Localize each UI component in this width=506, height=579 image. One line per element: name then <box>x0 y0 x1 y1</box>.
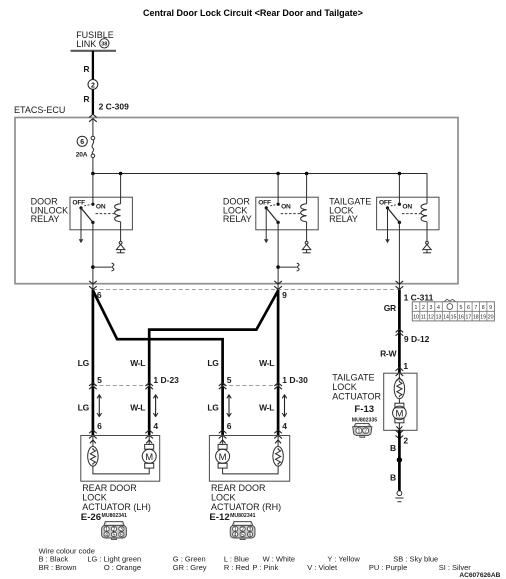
relay U3 box (tailgate lock relay) <box>377 197 439 230</box>
svg-text:W-L: W-L <box>259 358 274 368</box>
svg-text:RELAY: RELAY <box>223 214 252 224</box>
svg-text:1 C-311: 1 C-311 <box>404 292 434 302</box>
U3 coil-to-earth wire <box>426 222 428 242</box>
fusible link bus bar <box>71 50 117 52</box>
svg-text:6: 6 <box>97 421 102 431</box>
U3 common dot <box>398 221 401 224</box>
svg-text:LOCK: LOCK <box>332 382 357 392</box>
U2 switch lever <box>266 208 278 223</box>
svg-text:R : Red: R : Red <box>224 563 249 572</box>
U1 ON contact dot <box>91 203 94 206</box>
svg-text:9: 9 <box>282 290 287 300</box>
U1 dashed link to coil <box>96 213 117 215</box>
U1 common dot <box>91 221 94 224</box>
svg-text:B: B <box>390 443 396 453</box>
svg-text:5: 5 <box>97 375 102 385</box>
U3 dead-end arrowhead <box>385 239 390 243</box>
U3 ON contact dot <box>398 203 401 206</box>
U1 exit chevrons <box>89 281 96 289</box>
RH internal arrowhead 1 <box>220 440 225 443</box>
LH actuator box <box>81 436 160 482</box>
svg-text:Central Door Lock Circuit <Rea: Central Door Lock Circuit <Rear Door and… <box>143 8 363 18</box>
svg-text:W-L: W-L <box>130 358 145 368</box>
chevrons wire3 at D-30 <box>219 383 226 389</box>
unlock branch wire to RH actuator <box>93 291 223 436</box>
chevrons wire1 at D-23 <box>89 383 96 389</box>
tailgate internal arrowhead <box>397 378 402 381</box>
U1 dashed OFF-ON link <box>84 205 91 206</box>
U3 dashed link to coil <box>402 213 422 215</box>
svg-text:MU802341: MU802341 <box>102 513 127 519</box>
svg-text:17: 17 <box>466 315 472 321</box>
U1 coil-to-earth wire <box>120 222 122 242</box>
svg-text:9 D-12: 9 D-12 <box>404 334 430 344</box>
fusible link label <box>76 30 114 49</box>
svg-text:15: 15 <box>451 315 457 321</box>
svg-text:ACTUATOR: ACTUATOR <box>332 392 381 402</box>
svg-text:R: R <box>83 94 89 104</box>
svg-text:11: 11 <box>421 315 426 321</box>
svg-text:RELAY: RELAY <box>329 214 358 224</box>
two-way arrow wire2 <box>154 395 158 417</box>
U2 coil feed wire <box>306 174 308 204</box>
U2 dashed link to coil <box>281 213 302 215</box>
LH lock switch (resistor oval) <box>88 447 98 467</box>
svg-text:R-W: R-W <box>380 349 397 359</box>
two-way arrow wire1 <box>97 395 101 417</box>
svg-text:ON: ON <box>402 204 412 211</box>
chevrons wire4 at D-30 <box>275 383 282 389</box>
tailgate motor M <box>393 403 407 423</box>
junction dot (lock coil) <box>305 172 309 176</box>
RH lock switch (resistor oval) <box>273 447 283 467</box>
tailgate wire (GR segment) <box>398 290 401 374</box>
svg-text:E-26: E-26 <box>81 512 101 523</box>
tailgate actuator entry chevrons <box>396 368 403 376</box>
svg-text:W-L: W-L <box>130 402 145 412</box>
DOOR LOCK RELAY label <box>223 197 252 225</box>
tailgate internal wire (bottom) <box>398 423 400 431</box>
svg-text:2 C-309: 2 C-309 <box>99 102 130 112</box>
E-12 connector icon <box>230 522 255 540</box>
svg-text:LG: LG <box>207 358 219 368</box>
svg-text:LG: LG <box>78 402 90 412</box>
U1 switch lever <box>81 208 93 223</box>
svg-text:ON: ON <box>281 204 291 211</box>
svg-text:LINK: LINK <box>76 39 96 49</box>
U2 output junction dot <box>276 265 280 269</box>
tailgate exit chevrons <box>396 431 403 439</box>
earth junction dot <box>397 457 402 462</box>
U1 OFF dead-end wire <box>80 208 82 240</box>
svg-text:12: 12 <box>428 315 434 321</box>
svg-text:2: 2 <box>91 82 95 89</box>
U2 common dot <box>276 221 279 224</box>
relay U1 box (door unlock relay) <box>70 197 132 230</box>
svg-text:13: 13 <box>436 315 442 321</box>
svg-text:10: 10 <box>413 315 419 321</box>
svg-text:LG: LG <box>78 358 90 368</box>
U1 branch to other circuit <box>93 266 112 268</box>
D-12 chevrons <box>396 329 403 335</box>
svg-text:4: 4 <box>153 421 158 431</box>
svg-text:2: 2 <box>364 429 367 435</box>
svg-text:B: B <box>390 472 396 482</box>
U3 switched output wire <box>398 222 400 289</box>
U2 branch hook <box>297 263 299 271</box>
svg-text:5: 5 <box>460 305 463 311</box>
two-way arrow wire4 <box>283 395 287 417</box>
U3 pivot dot <box>386 206 389 209</box>
svg-text:6: 6 <box>120 532 123 538</box>
U2 dead-end arrowhead <box>264 239 269 243</box>
U3 exit chevrons <box>396 281 403 289</box>
svg-text:AC607626AB: AC607626AB <box>459 572 500 579</box>
relay U2 box (door lock relay) <box>256 197 318 230</box>
junction dot (tailgate relay switch) <box>398 172 402 176</box>
svg-text:ACTUATOR (RH): ACTUATOR (RH) <box>211 502 281 512</box>
svg-text:R: R <box>83 64 89 74</box>
svg-text:MU802335: MU802335 <box>352 417 377 423</box>
svg-text:F-13: F-13 <box>354 404 374 415</box>
ETACS-ECU box <box>15 118 458 284</box>
B earth wire <box>398 430 401 491</box>
fuse 20A <box>91 136 95 157</box>
svg-text:4: 4 <box>234 532 237 538</box>
F-13 connector icon <box>353 423 372 437</box>
U2 coil-to-earth wire <box>306 222 308 242</box>
svg-text:5: 5 <box>113 532 116 538</box>
svg-text:1 D-23: 1 D-23 <box>153 375 179 385</box>
U3 switch feed wire <box>398 174 400 205</box>
U2 OFF dead-end wire <box>265 208 267 240</box>
U3 OFF dead-end wire <box>387 208 389 240</box>
svg-text:P : Pink: P : Pink <box>253 563 279 572</box>
U1 output junction dot <box>91 265 95 269</box>
RH internal arrowhead 2 <box>275 440 280 443</box>
U1 earth symbol <box>116 241 124 252</box>
svg-text:6: 6 <box>227 421 232 431</box>
svg-text:OFF: OFF <box>72 200 85 207</box>
svg-text:4: 4 <box>437 305 440 311</box>
svg-text:1: 1 <box>415 305 418 311</box>
E-26 connector icon <box>102 522 127 540</box>
U3 earth symbol <box>423 241 431 252</box>
connector dashed line below ECU <box>93 289 400 291</box>
LH motor M <box>142 444 156 468</box>
svg-text:2: 2 <box>422 305 425 311</box>
body earth symbol <box>395 491 403 502</box>
svg-text:ETACS-ECU: ETACS-ECU <box>14 105 65 115</box>
U2 coil <box>301 204 307 222</box>
svg-text:RELAY: RELAY <box>31 214 60 224</box>
circled 6 (fuse number) <box>77 136 87 146</box>
tailgate internal wire (top) <box>398 373 400 379</box>
C-311 connector pin table <box>412 299 494 321</box>
svg-text:M: M <box>145 452 153 463</box>
svg-text:16: 16 <box>458 315 464 321</box>
U1 switched output wire <box>92 222 94 289</box>
svg-text:V : Violet: V : Violet <box>307 563 338 572</box>
battery feed wire (R) <box>92 51 94 115</box>
svg-text:TAILGATE: TAILGATE <box>332 372 374 382</box>
entry chevrons wire1 <box>89 430 96 438</box>
svg-text:OFF: OFF <box>379 200 392 207</box>
svg-text:SI : Silver: SI : Silver <box>439 563 472 572</box>
tailgate lock switch (resistor oval) <box>394 379 404 399</box>
wire colour code line 2 <box>39 563 472 572</box>
tailgate internal exit arrowhead <box>397 427 402 430</box>
chevrons wire2 at D-23 <box>146 383 153 389</box>
U1 branch hook <box>111 263 113 271</box>
U1 pivot dot <box>79 206 82 209</box>
wire fuse to bus junction <box>92 158 94 174</box>
svg-text:LG: LG <box>207 402 219 412</box>
junction dot (fuse/bus) <box>91 172 95 176</box>
svg-text:1: 1 <box>357 429 360 435</box>
svg-text:O : Orange: O : Orange <box>104 563 141 572</box>
RH actuator box <box>209 436 289 482</box>
svg-text:20: 20 <box>488 315 494 321</box>
U3 switch lever <box>388 208 400 223</box>
U1 coil <box>115 204 121 222</box>
svg-text:8: 8 <box>482 305 485 311</box>
LH actuator internal wire (switch side) <box>92 436 94 447</box>
D-23 dashed connector line <box>93 385 149 387</box>
LG wire to LH actuator <box>92 290 95 436</box>
LH internal link wire <box>93 466 149 474</box>
U1 dead-end arrowhead <box>79 239 84 243</box>
U3 dashed OFF-ON link <box>391 205 398 206</box>
U2 pivot dot <box>265 206 268 209</box>
svg-text:GR: GR <box>384 303 396 313</box>
svg-text:1 D-30: 1 D-30 <box>282 375 308 385</box>
LH internal arrowhead 1 <box>90 440 95 443</box>
U2 branch to other circuit <box>278 266 297 268</box>
svg-text:M: M <box>219 452 227 463</box>
circled 38 <box>100 39 109 48</box>
TAILGATE LOCK RELAY label <box>329 197 371 225</box>
svg-text:3: 3 <box>430 305 433 311</box>
W-L wire to RH actuator <box>277 290 280 436</box>
two-way arrow wire3 <box>227 395 231 417</box>
RH actuator internal wire (switch side) <box>277 436 279 447</box>
junction dot (lock relay switch) <box>276 172 280 176</box>
U2 switched output wire <box>277 222 279 289</box>
RH actuator label <box>211 483 281 512</box>
svg-text:ACTUATOR (LH): ACTUATOR (LH) <box>82 502 151 512</box>
svg-text:4: 4 <box>282 421 287 431</box>
RH actuator internal wire (motor side) <box>222 436 224 445</box>
svg-text:ON: ON <box>96 204 106 211</box>
DOOR UNLOCK RELAY label <box>31 197 69 225</box>
svg-text:7: 7 <box>474 305 477 311</box>
svg-text:6: 6 <box>467 305 470 311</box>
TAILGATE LOCK ACTUATOR label <box>332 372 381 401</box>
tailgate actuator box <box>384 373 417 430</box>
svg-text:18: 18 <box>473 315 479 321</box>
wire colour code line 1 <box>39 555 439 564</box>
U2 switch feed wire <box>277 174 279 205</box>
svg-text:PU : Purple: PU : Purple <box>369 563 407 572</box>
svg-text:6: 6 <box>80 139 84 146</box>
svg-text:38: 38 <box>101 42 107 48</box>
svg-text:W-L: W-L <box>259 402 274 412</box>
entry chevrons wire3 <box>219 430 226 438</box>
U1 switch feed wire <box>92 174 94 205</box>
wire from C-309 entry to fuse <box>92 119 94 137</box>
tailgate wire between switch and motor <box>398 399 400 404</box>
svg-text:BR : Brown: BR : Brown <box>39 563 77 572</box>
U3 coil <box>421 204 427 222</box>
LH actuator internal wire (motor side) <box>148 436 150 445</box>
LH actuator label <box>82 483 151 512</box>
chevrons at C-309 entry <box>89 114 96 121</box>
svg-text:GR : Grey: GR : Grey <box>173 563 207 572</box>
D-30 dashed connector line <box>223 385 279 387</box>
svg-text:20A: 20A <box>76 151 88 158</box>
circled 2 <box>88 80 98 90</box>
RH internal link wire <box>223 466 279 474</box>
entry chevrons wire2 <box>146 430 153 438</box>
U2 dashed OFF-ON link <box>270 205 277 206</box>
svg-text:OFF: OFF <box>258 200 271 207</box>
svg-text:2: 2 <box>403 436 408 446</box>
U2 ON contact dot <box>277 203 280 206</box>
svg-text:19: 19 <box>480 315 486 321</box>
svg-text:5: 5 <box>227 375 232 385</box>
power bus inside ECU <box>93 174 427 204</box>
entry chevrons wire4 <box>275 430 282 438</box>
svg-text:1: 1 <box>403 361 408 371</box>
svg-text:4: 4 <box>105 532 108 538</box>
RH motor M <box>216 444 230 468</box>
svg-text:6: 6 <box>249 532 252 538</box>
U2 earth symbol <box>302 241 310 252</box>
svg-text:5: 5 <box>241 532 244 538</box>
U1 coil feed wire <box>120 174 122 204</box>
svg-text:9: 9 <box>489 305 492 311</box>
U2 exit chevrons <box>275 281 282 289</box>
lock branch wire to LH actuator <box>149 291 278 436</box>
svg-text:E-12: E-12 <box>209 512 229 523</box>
svg-text:14: 14 <box>443 315 449 321</box>
svg-text:MU802341: MU802341 <box>230 513 255 519</box>
LH internal arrowhead 2 <box>147 440 152 443</box>
junction dot (unlock coil) <box>119 172 123 176</box>
